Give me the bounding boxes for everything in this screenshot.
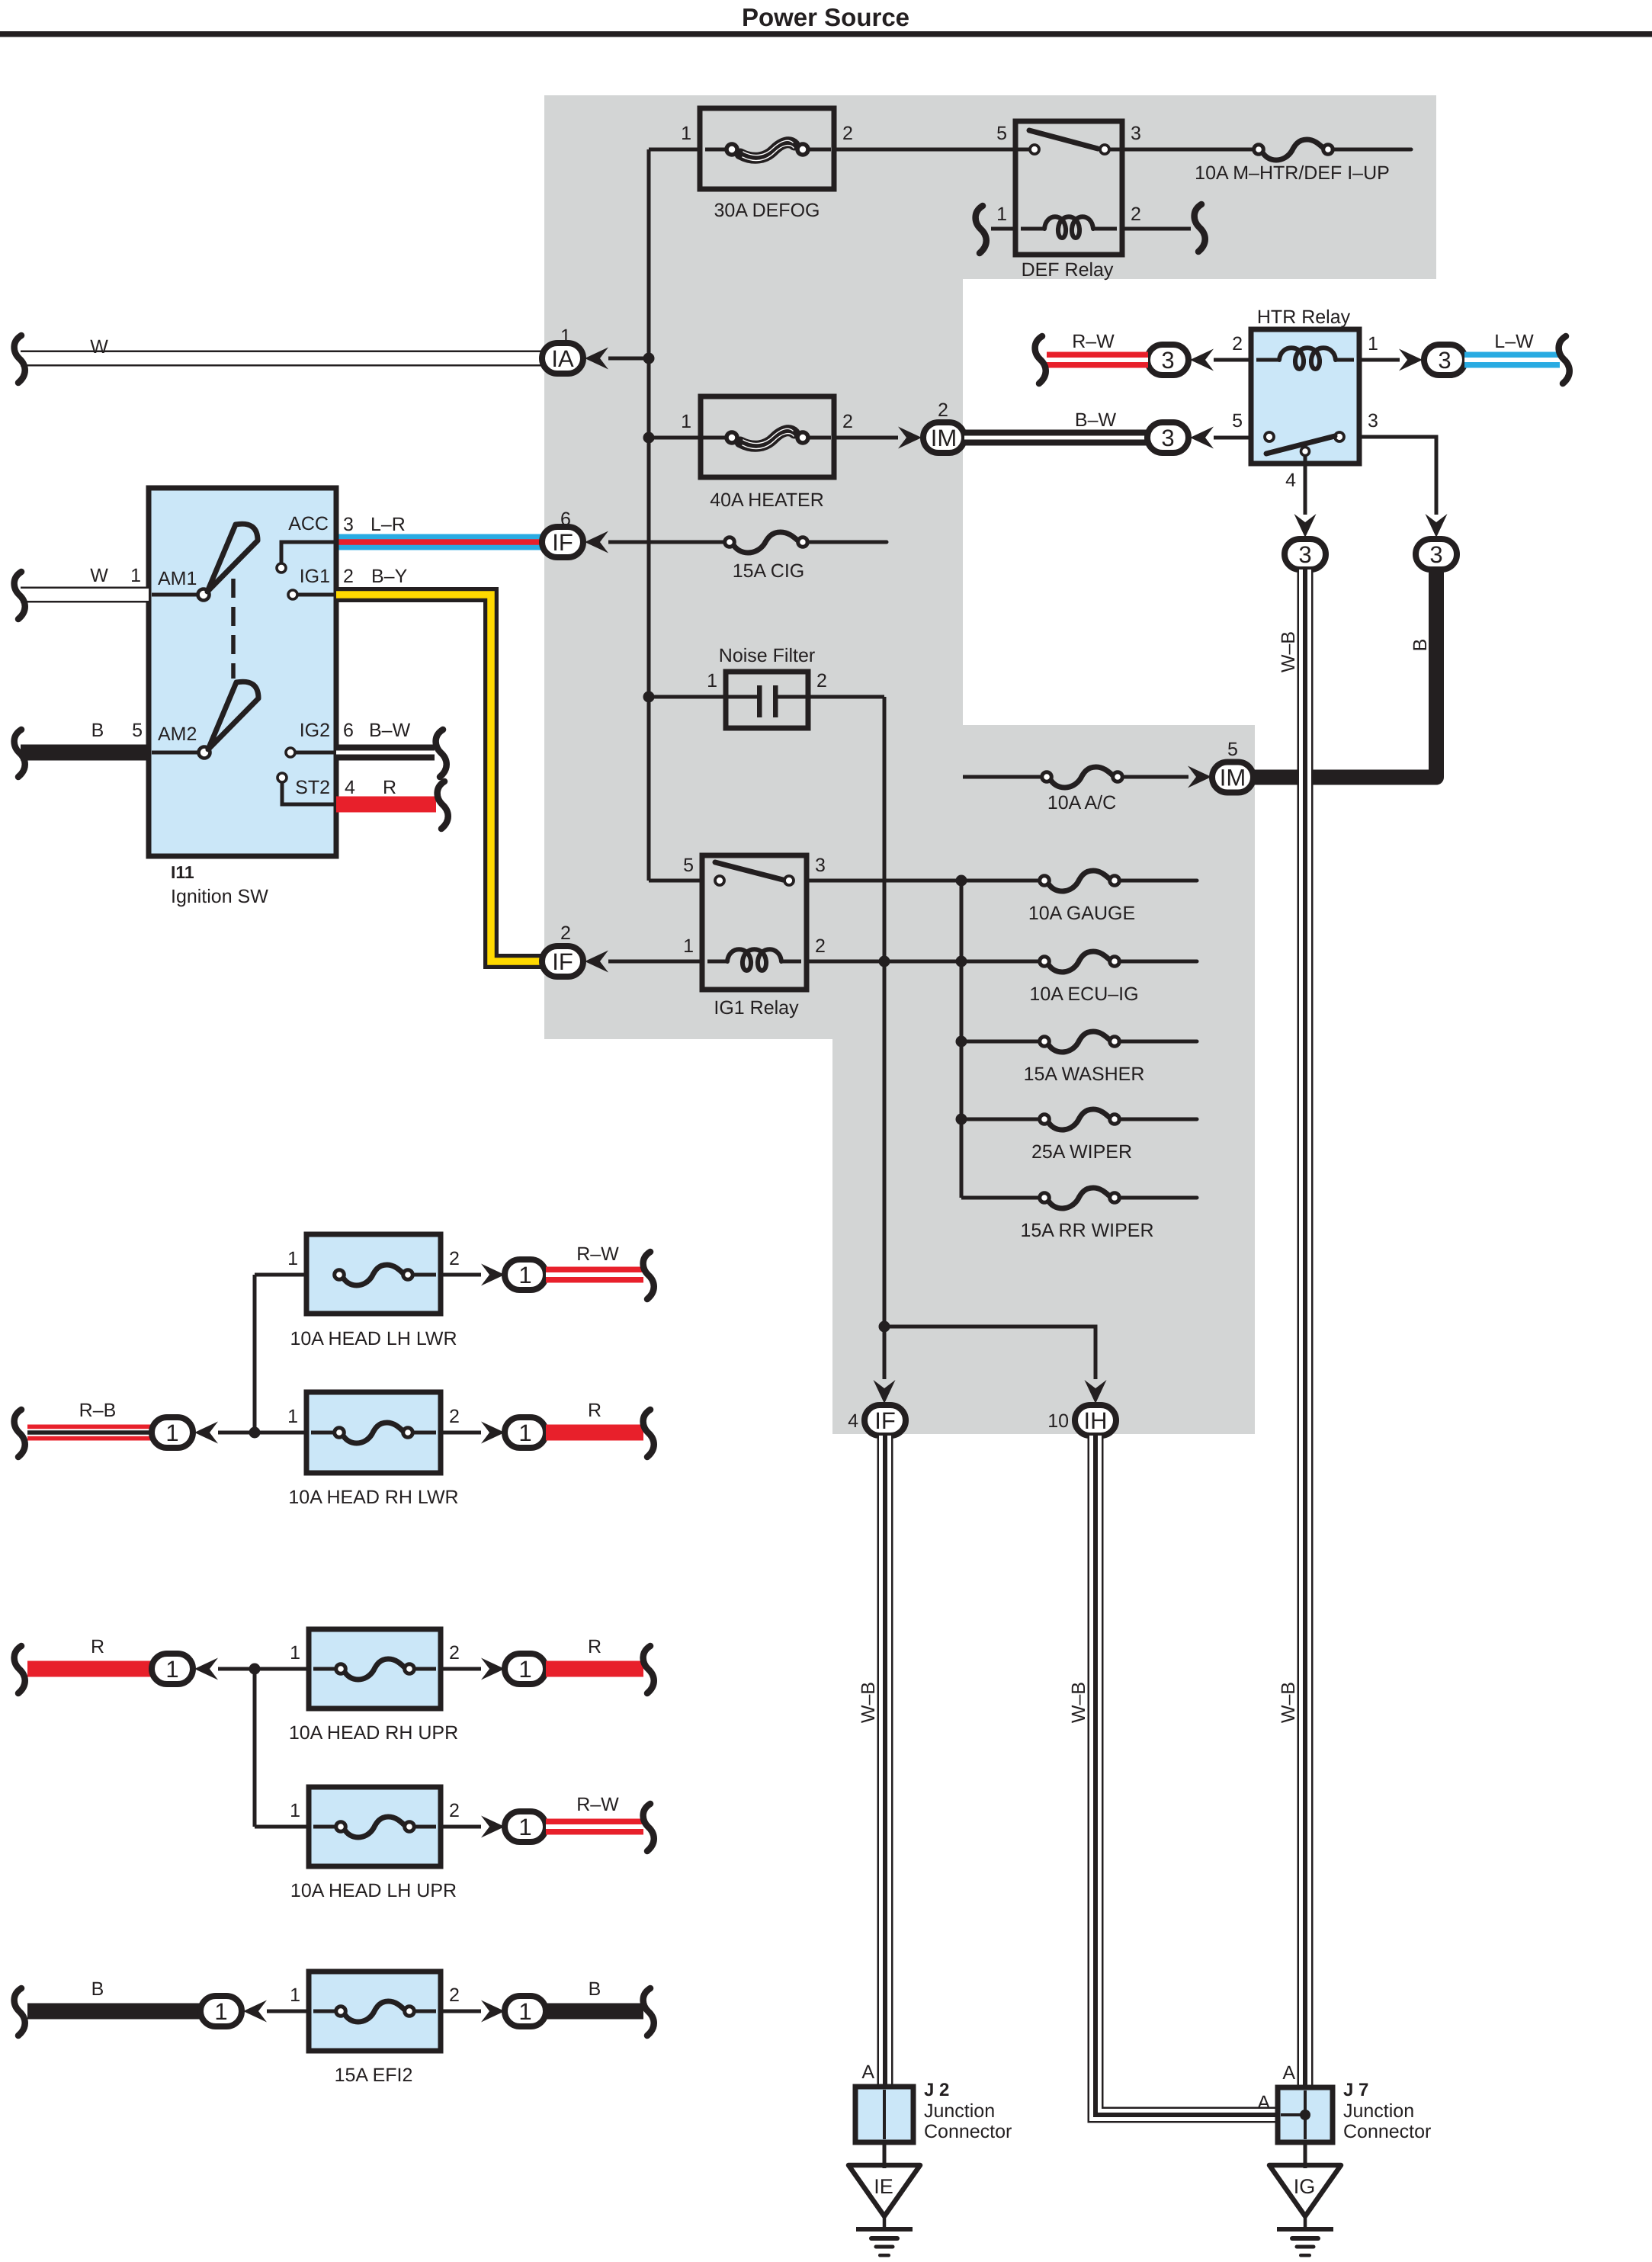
- svg-text:W–B: W–B: [1068, 1682, 1089, 1723]
- wire W-B from HTR pin4 to J7: [1298, 570, 1314, 2087]
- svg-text:3: 3: [1161, 425, 1174, 451]
- svg-text:3: 3: [1438, 347, 1451, 374]
- svg-text:10A ECU–IG: 10A ECU–IG: [1029, 983, 1138, 1005]
- svg-text:10A A/C: 10A A/C: [1047, 792, 1116, 813]
- svg-text:40A HEATER: 40A HEATER: [710, 489, 824, 511]
- wire B to connector 1 efi2: [27, 2004, 200, 2020]
- wire W-B IF4 to J2: [877, 1436, 893, 2087]
- svg-text:2: 2: [1131, 204, 1141, 225]
- arrow into IA: [585, 348, 608, 370]
- arrow into connector 1 R-W lh upr: [481, 1816, 505, 1838]
- svg-text:3: 3: [343, 514, 354, 535]
- svg-text:1: 1: [290, 1642, 300, 1664]
- svg-text:5: 5: [132, 720, 143, 741]
- connector 3 L-W: [1424, 345, 1465, 375]
- relay IG1 Relay: [702, 855, 807, 990]
- fuse 10A A/C: [1050, 767, 1115, 788]
- wire fuse bank bus: [960, 881, 964, 1198]
- svg-text:2: 2: [1232, 333, 1243, 355]
- svg-text:R–B: R–B: [79, 1400, 117, 1421]
- svg-text:L–W: L–W: [1494, 331, 1534, 352]
- relay DEF Relay: [1015, 121, 1122, 255]
- wire IG1 coil pin2 right: [807, 960, 1040, 964]
- arrow into connector 1 left efi2: [243, 2001, 267, 2023]
- svg-text:Connector: Connector: [924, 2121, 1012, 2142]
- connector 1 B efi2 right: [505, 1996, 546, 2026]
- svg-text:IF: IF: [552, 529, 573, 556]
- connector 3 below HTR pin4: [1285, 539, 1326, 570]
- svg-text:1: 1: [130, 565, 141, 586]
- wire R rh upr right: [546, 1661, 643, 1677]
- wire R from ST2: [336, 797, 436, 813]
- wire DEFOG to DEF relay: [834, 148, 1029, 152]
- junction dot ecu-ig row: [956, 956, 967, 967]
- svg-text:A: A: [1282, 2062, 1295, 2084]
- svg-text:4: 4: [848, 1410, 858, 1432]
- arrow into IM pin 5: [1188, 766, 1211, 788]
- fuse 15A RR WIPER: [1047, 1188, 1111, 1208]
- arrow down to connector 3 pin4: [1294, 514, 1317, 537]
- svg-text:10A HEAD RH LWR: 10A HEAD RH LWR: [288, 1487, 458, 1508]
- svg-text:5: 5: [1232, 410, 1243, 432]
- svg-text:1: 1: [214, 1998, 227, 2025]
- wire W to connector IA: [21, 351, 543, 367]
- wire DEF relay coil pin 2: [1122, 227, 1191, 231]
- svg-text:W–B: W–B: [1278, 1682, 1299, 1723]
- svg-text:1: 1: [707, 670, 717, 691]
- junction dot HEATER row: [643, 432, 655, 444]
- svg-text:15A RR WIPER: 15A RR WIPER: [1020, 1220, 1153, 1241]
- svg-text:2: 2: [449, 1800, 460, 1821]
- gray background region: [544, 95, 1436, 1434]
- svg-text:15A EFI2: 15A EFI2: [335, 2065, 413, 2086]
- svg-text:AM2: AM2: [158, 724, 197, 745]
- wire riser noise filter down to IF pin4: [883, 697, 887, 1379]
- svg-text:5: 5: [683, 855, 694, 876]
- wire B efi2 right: [546, 2004, 643, 2020]
- svg-text:ST2: ST2: [295, 777, 330, 798]
- svg-text:1: 1: [518, 1814, 531, 1840]
- svg-text:IM: IM: [1220, 765, 1246, 791]
- svg-text:4: 4: [1285, 470, 1296, 491]
- svg-text:2: 2: [560, 922, 571, 944]
- svg-text:B: B: [1410, 639, 1431, 652]
- wire arrow to fuse efi2: [267, 2010, 313, 2013]
- svg-text:10A GAUGE: 10A GAUGE: [1028, 903, 1135, 924]
- svg-text:6: 6: [343, 720, 354, 741]
- svg-text:30A DEFOG: 30A DEFOG: [714, 200, 820, 221]
- svg-text:10A HEAD LH UPR: 10A HEAD LH UPR: [290, 1880, 457, 1901]
- svg-text:B: B: [589, 1978, 601, 2000]
- svg-text:Junction: Junction: [924, 2100, 995, 2122]
- bracket DEF coil right: [1195, 204, 1205, 252]
- bracket R-W lh lwr: [643, 1252, 654, 1299]
- fuse 15A WASHER: [1047, 1032, 1111, 1052]
- arrow into IF pin6: [585, 531, 608, 553]
- svg-text:J 7: J 7: [1343, 2080, 1368, 2100]
- junction dot wiper row: [956, 1114, 967, 1125]
- svg-text:ACC: ACC: [288, 513, 329, 534]
- connector 1 left rh upr: [152, 1654, 193, 1684]
- svg-text:2: 2: [449, 1248, 460, 1269]
- svg-text:R: R: [383, 777, 396, 798]
- svg-text:W–B: W–B: [858, 1682, 879, 1723]
- svg-text:3: 3: [1131, 123, 1141, 144]
- fuse 10A HEAD LH LWR: [255, 1273, 313, 1277]
- wire DEF relay to fuse M-HTR: [1122, 148, 1254, 152]
- svg-text:1: 1: [996, 204, 1007, 225]
- wire L-R ACC to IF: [336, 534, 544, 550]
- svg-text:2: 2: [842, 123, 853, 144]
- svg-text:1: 1: [165, 1420, 178, 1446]
- wire L-W: [1464, 352, 1560, 368]
- wire bus corner into IG1 pin5: [649, 879, 702, 883]
- wire R-W lh lwr: [546, 1267, 643, 1283]
- svg-text:1: 1: [518, 1262, 531, 1288]
- wire wiper row: [961, 1118, 1040, 1121]
- svg-text:IF: IF: [552, 948, 573, 975]
- svg-text:3: 3: [815, 855, 826, 876]
- svg-text:AM1: AM1: [158, 568, 197, 589]
- svg-text:1: 1: [518, 1420, 531, 1446]
- fuse 25A WIPER: [1047, 1109, 1111, 1130]
- wire arrow to junction: [218, 1431, 306, 1435]
- wire J7 to ground IG: [1304, 2142, 1307, 2168]
- junction dot gauge row: [956, 875, 967, 887]
- svg-text:R: R: [91, 1636, 104, 1657]
- svg-text:2: 2: [449, 1984, 460, 2006]
- bracket R rh upr right: [643, 1646, 654, 1693]
- wire R to connector 1 rh upr: [27, 1661, 151, 1677]
- svg-text:IG1: IG1: [300, 566, 330, 587]
- rotor blade AM2: [208, 682, 258, 749]
- wire to connector 1 R rh lwr: [441, 1431, 481, 1435]
- wire IF to 15A CIG: [608, 541, 725, 544]
- svg-text:IE: IE: [874, 2175, 893, 2198]
- fuse 40A HEATER: [701, 396, 834, 477]
- svg-text:2: 2: [815, 935, 826, 957]
- svg-text:1: 1: [683, 935, 694, 957]
- connector 1 R-W lh upr: [505, 1811, 546, 1842]
- svg-text:J 2: J 2: [924, 2080, 949, 2100]
- wire rr wiper row: [961, 1196, 1040, 1200]
- svg-text:1: 1: [518, 1998, 531, 2025]
- wire J2 to ground IE: [883, 2142, 887, 2168]
- wire branch to IH: [884, 1327, 1095, 1379]
- svg-text:R–W: R–W: [576, 1794, 619, 1815]
- svg-text:10A HEAD LH LWR: 10A HEAD LH LWR: [290, 1328, 457, 1349]
- bracket R-W lh upr: [643, 1804, 654, 1851]
- svg-text:Connector: Connector: [1343, 2121, 1431, 2142]
- fuse 10A HEAD LH UPR: [255, 1825, 313, 1829]
- wire IF pin2 to IG1 coil: [608, 960, 702, 964]
- wire DEF relay coil pin 1: [991, 227, 1015, 231]
- bracket B efi2 right: [643, 1988, 654, 2036]
- wire B-Y from IG1 to IF pin2: [336, 595, 544, 961]
- svg-text:B–Y: B–Y: [371, 566, 408, 587]
- wire main bus vertical: [647, 149, 651, 881]
- svg-text:4: 4: [345, 777, 355, 798]
- svg-text:1: 1: [1368, 333, 1378, 355]
- svg-text:3: 3: [1298, 541, 1311, 568]
- connector 1 R-W lwr: [505, 1259, 546, 1290]
- arrow into connector 3 B-W: [1190, 427, 1214, 449]
- ignition switch I11: [149, 488, 336, 856]
- arrow into connector 1 R-W: [481, 1264, 505, 1286]
- svg-text:5: 5: [996, 123, 1007, 144]
- svg-text:W–B: W–B: [1278, 631, 1299, 672]
- svg-text:IG: IG: [1294, 2175, 1316, 2198]
- arrow into connector 1 R-B: [194, 1422, 218, 1444]
- wire to connector 1 B efi2 right: [441, 2010, 481, 2013]
- fuse 30A DEFOG: [700, 108, 834, 189]
- wire riser head lwr: [253, 1275, 257, 1433]
- svg-text:W: W: [90, 336, 108, 358]
- wire R-W lh upr: [546, 1819, 643, 1835]
- bracket L-W end: [1559, 336, 1570, 383]
- svg-text:DEF Relay: DEF Relay: [1022, 259, 1114, 281]
- fuse 15A CIG: [733, 532, 800, 553]
- wire noise filter to riser: [778, 695, 884, 699]
- svg-text:IH: IH: [1084, 1407, 1108, 1434]
- svg-text:B–W: B–W: [1075, 409, 1117, 431]
- junction dot head upr: [249, 1664, 261, 1675]
- junction dot IF-IH branch: [879, 1321, 890, 1333]
- svg-text:2: 2: [816, 670, 827, 691]
- svg-text:3: 3: [1429, 541, 1442, 568]
- svg-text:R: R: [588, 1400, 601, 1421]
- svg-text:R: R: [588, 1636, 601, 1657]
- ground IE: [848, 2165, 920, 2216]
- arrow into connector 1 left rh upr: [194, 1658, 218, 1680]
- wire A/C row: [963, 775, 1042, 779]
- arrow into connector 3 L-W: [1399, 349, 1423, 371]
- svg-text:I11: I11: [171, 862, 194, 882]
- fuse 10A M-HTR/DEF I-UP: [1262, 140, 1325, 160]
- svg-text:15A WASHER: 15A WASHER: [1024, 1064, 1145, 1085]
- svg-text:L–R: L–R: [370, 514, 406, 535]
- connector 3 below HTR pin3: [1416, 539, 1457, 570]
- junction dot noise filter row: [643, 691, 655, 703]
- wire bus to 30A DEFOG: [649, 148, 700, 152]
- wire R-W: [1047, 352, 1148, 368]
- ground IG: [1269, 2165, 1341, 2216]
- svg-text:W: W: [90, 565, 108, 586]
- arrow into connector 1 R rh lwr: [481, 1422, 505, 1444]
- bracket R end: [438, 781, 448, 829]
- arrow into connector 3 R-W: [1190, 349, 1214, 371]
- connector 3 R-W: [1147, 345, 1188, 375]
- svg-text:10A HEAD RH UPR: 10A HEAD RH UPR: [289, 1722, 458, 1744]
- wire HEATER to IM: [834, 436, 898, 440]
- wire bus to noise filter: [649, 695, 757, 699]
- connector 1 R-B: [152, 1417, 193, 1448]
- junction dot washer row: [956, 1036, 967, 1048]
- dashed link: [231, 579, 236, 679]
- svg-text:Junction: Junction: [1343, 2100, 1414, 2122]
- svg-text:Power Source: Power Source: [742, 3, 909, 31]
- connector 3 B-W: [1147, 422, 1188, 453]
- wire riser head upr: [253, 1669, 257, 1827]
- svg-text:2: 2: [842, 411, 853, 432]
- svg-text:1: 1: [518, 1656, 531, 1683]
- connector 1 left efi2: [200, 1996, 242, 2026]
- pin AM2: [21, 745, 149, 761]
- svg-text:2: 2: [449, 1406, 460, 1427]
- svg-text:1: 1: [290, 1984, 300, 2006]
- svg-text:IA: IA: [551, 345, 574, 372]
- bracket R-B: [14, 1410, 25, 1457]
- arrow into connector 1 R rh upr right: [481, 1658, 505, 1680]
- svg-text:Noise Filter: Noise Filter: [719, 645, 815, 666]
- bracket R rh lwr: [643, 1410, 654, 1457]
- wire W-B IH10 to J7: [1095, 1436, 1278, 2115]
- svg-text:IM: IM: [931, 425, 957, 451]
- svg-text:2: 2: [449, 1642, 460, 1664]
- svg-text:IF: IF: [874, 1407, 896, 1434]
- bracket B-W end: [436, 730, 447, 777]
- bracket B left efi2: [14, 1988, 25, 2036]
- svg-text:1: 1: [681, 123, 691, 144]
- svg-text:IG2: IG2: [300, 720, 330, 741]
- arrow into IF pin2: [585, 951, 608, 973]
- svg-text:A: A: [1257, 2092, 1270, 2113]
- pin AM1: [21, 587, 149, 603]
- wire HTR pin 3 right and down: [1359, 437, 1436, 515]
- fuse 10A ECU-IG: [1047, 951, 1111, 972]
- arrow into connector 1 B efi2 right: [481, 2001, 505, 2023]
- wire bus to 40A HEATER: [649, 436, 705, 440]
- junction dot IA row: [643, 353, 655, 364]
- connector 1 R rh upr right: [505, 1654, 546, 1684]
- svg-text:1: 1: [681, 411, 691, 432]
- svg-text:Ignition SW: Ignition SW: [171, 886, 268, 907]
- wire B-W from IG2: [336, 745, 435, 761]
- wire to connector 1 R rh upr right: [441, 1667, 481, 1671]
- svg-text:R–W: R–W: [576, 1243, 619, 1265]
- wire to HTR relay pin 5: [1214, 436, 1251, 440]
- svg-text:2: 2: [343, 566, 354, 587]
- arrow down to connector 3 pin3: [1426, 514, 1448, 537]
- wire to connector 1 R-W: [441, 1273, 481, 1277]
- wire to connector 1 R-W lh upr: [441, 1825, 481, 1829]
- bracket R left rh upr: [14, 1646, 25, 1693]
- wire HTR pin2 to connector 3: [1214, 358, 1251, 362]
- bracket W wire end: [14, 335, 25, 383]
- svg-text:1: 1: [287, 1406, 298, 1427]
- svg-text:R–W: R–W: [1072, 331, 1115, 352]
- connector 1 R rh lwr: [505, 1417, 546, 1448]
- junction dot head lwr: [249, 1427, 261, 1439]
- svg-text:10A M–HTR/DEF I–UP: 10A M–HTR/DEF I–UP: [1195, 162, 1390, 184]
- wire washer row: [961, 1040, 1040, 1044]
- svg-text:HTR Relay: HTR Relay: [1257, 306, 1351, 328]
- wire HTR pin1 to arrow: [1359, 358, 1400, 362]
- svg-text:IG1 Relay: IG1 Relay: [714, 997, 799, 1019]
- wire arrow to junction rh upr: [218, 1667, 309, 1671]
- svg-text:B–W: B–W: [369, 720, 411, 741]
- svg-text:A: A: [861, 2061, 874, 2083]
- arrow into IM pin 2: [898, 427, 922, 449]
- fuse 10A HEAD RH UPR: [309, 1629, 441, 1709]
- svg-text:15A CIG: 15A CIG: [733, 560, 805, 582]
- wire R-B to connector 1: [27, 1425, 151, 1441]
- svg-text:1: 1: [287, 1248, 298, 1269]
- bracket DEF coil left: [976, 206, 986, 253]
- svg-text:B: B: [91, 1978, 104, 2000]
- svg-text:1: 1: [165, 1656, 178, 1683]
- wire B-W IM to connector 3: [964, 430, 1148, 446]
- title rule: [0, 31, 1652, 37]
- bracket R-W end: [1035, 336, 1046, 383]
- wire R rh lwr: [546, 1425, 643, 1441]
- rotor blade AM1: [207, 524, 258, 592]
- fuse 10A GAUGE: [1047, 871, 1111, 891]
- svg-text:2: 2: [938, 399, 948, 421]
- svg-text:1: 1: [290, 1800, 300, 1821]
- svg-text:10: 10: [1047, 1410, 1069, 1432]
- svg-text:3: 3: [1161, 347, 1174, 374]
- svg-text:3: 3: [1368, 410, 1378, 432]
- fuse 10A HEAD RH LWR: [306, 1392, 441, 1473]
- svg-text:5: 5: [1227, 739, 1238, 760]
- arrow down into IH pin10: [1085, 1380, 1107, 1404]
- wire IA to bus: [608, 357, 649, 361]
- arrow down into IF pin4: [874, 1380, 896, 1404]
- wire IG1 pin3 to gauge fuse: [807, 879, 1040, 883]
- fuse 15A EFI2: [309, 1972, 441, 2051]
- junction dot riser coil row: [879, 956, 890, 967]
- svg-text:25A WIPER: 25A WIPER: [1031, 1141, 1132, 1163]
- svg-text:B: B: [91, 720, 104, 741]
- wire B from connector down to IM row: [1254, 568, 1436, 778]
